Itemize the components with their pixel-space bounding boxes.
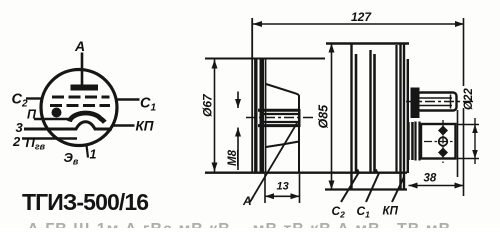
svg-text:А: А [242, 194, 252, 208]
svg-text:127: 127 [351, 10, 372, 24]
svg-text:13: 13 [277, 181, 289, 193]
svg-text:2: 2 [12, 134, 21, 149]
svg-text:38: 38 [424, 173, 437, 185]
svg-text:С1: С1 [357, 204, 371, 220]
svg-text:Ø85: Ø85 [317, 104, 331, 129]
svg-text:Эв: Эв [64, 150, 79, 167]
svg-text:А: А [74, 38, 85, 54]
svg-text:П: П [27, 108, 37, 122]
svg-text:С1: С1 [140, 96, 156, 114]
svg-text:КП: КП [383, 206, 399, 218]
svg-text:КП: КП [136, 119, 154, 134]
svg-text:М8: М8 [227, 149, 239, 166]
svg-text:Ø67: Ø67 [201, 93, 215, 117]
svg-text:1: 1 [90, 148, 97, 162]
svg-text:С2: С2 [332, 204, 346, 220]
svg-text:3: 3 [16, 120, 24, 135]
svg-text:Ø22: Ø22 [463, 88, 475, 110]
svg-text:С2: С2 [12, 92, 28, 110]
